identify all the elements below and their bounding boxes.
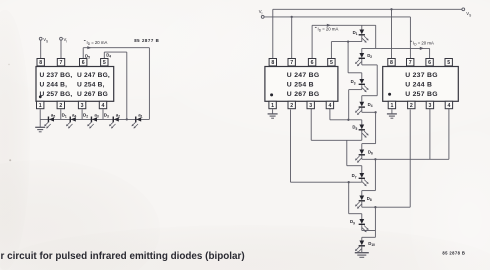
- pin 5 (U2): [328, 59, 335, 67]
- wire D9 anode jog: [349, 182, 362, 219]
- svg-text:U 244 B,: U 244 B,: [40, 81, 68, 88]
- pin 1 (U2): [269, 101, 276, 109]
- svg-text:1: 1: [39, 103, 42, 109]
- label D9: [350, 219, 355, 225]
- ground (pin 1 U2): [268, 109, 278, 118]
- svg-text:U 237 BG,: U 237 BG,: [40, 72, 73, 79]
- wire bridge: [375, 25, 377, 48]
- svg-text:U 267 BG: U 267 BG: [287, 91, 320, 98]
- wire: [40, 40, 42, 58]
- label 85 2877 B: [134, 38, 159, 43]
- pin 3 (U3): [426, 101, 433, 109]
- IR diode D1: [359, 30, 369, 43]
- svg-text:5: 5: [103, 60, 106, 66]
- wire D4 cathode link to D6 anode: [362, 108, 377, 144]
- label D3 at pin 4 riser: [104, 113, 109, 119]
- IR diode D3: [361, 73, 363, 79]
- node Vi (left circuit): [60, 37, 68, 43]
- pin 7 (U3): [407, 59, 414, 67]
- wire D8 cathode to pin 2 (U3): [362, 110, 410, 209]
- wire D6 cathode link down to D8 anode: [362, 159, 376, 190]
- IC U2 U247BG/U254B/U267BG: [265, 67, 338, 102]
- ground (below D10): [355, 247, 369, 258]
- label D1: [353, 30, 358, 36]
- label D1 at pin 2 riser: [62, 113, 67, 119]
- pin 4 (U1): [99, 101, 106, 109]
- label D4 at pin 5: [106, 52, 111, 58]
- label D4: [368, 102, 373, 108]
- node VS (right circuit): [462, 8, 471, 17]
- ground (pin 1 U3): [387, 109, 397, 118]
- wire D5 cathode / pin 3 (U2) line: [311, 109, 362, 141]
- pin 6 (U3): [426, 59, 433, 67]
- label a4: [72, 113, 77, 119]
- wire D3 cathode jog down to D5 anode: [349, 85, 362, 120]
- label D2: [367, 53, 372, 59]
- svg-text:U 247 BG,: U 247 BG,: [77, 72, 110, 79]
- pin 3 (U1): [78, 101, 85, 109]
- label a2: [116, 113, 121, 119]
- pin 2 (U2): [288, 101, 295, 109]
- svg-text:6: 6: [311, 60, 314, 66]
- wire ID arrow (U3): [362, 47, 430, 59]
- IR diode a5 (left circuit): [44, 117, 54, 129]
- svg-text:4: 4: [102, 103, 105, 109]
- label D2 at pin 3 riser: [83, 113, 88, 119]
- wire D7 anode: [361, 166, 363, 173]
- svg-text:1: 1: [390, 103, 393, 109]
- pin 7 (U2): [288, 59, 295, 67]
- wire risers to diode chain: [40, 109, 103, 119]
- label a3: [94, 113, 99, 119]
- IR diode D9: [359, 219, 369, 232]
- IR diode a4 (left circuit): [66, 117, 76, 129]
- pin 8 (U3): [388, 59, 395, 67]
- IC U1 U237BG/U244B/U257BG U247BG/U254B/U267BG: [36, 67, 114, 102]
- label 85 2878: [442, 250, 465, 255]
- svg-text:8: 8: [271, 60, 274, 66]
- pin 2 (U3): [408, 101, 415, 109]
- pin 5 (U3): [445, 59, 452, 67]
- label ID = 20 mA (left circuit): [84, 40, 108, 46]
- svg-text:8: 8: [39, 60, 42, 66]
- svg-text:6: 6: [82, 60, 85, 66]
- svg-text:5: 5: [447, 60, 450, 66]
- wire VS rail: [273, 8, 462, 58]
- svg-text:85 2878 B: 85 2878 B: [442, 250, 465, 255]
- wire D1 cathode to pin 5 (U2): [331, 36, 361, 59]
- svg-text:7: 7: [409, 60, 412, 66]
- pin 1 (U1): [37, 101, 44, 109]
- svg-text:3: 3: [428, 103, 431, 109]
- pin 2 (U1): [57, 101, 64, 109]
- IR diode a2 (left circuit): [109, 117, 119, 129]
- wire D4 anode: [361, 96, 363, 102]
- label D5 at pin 6: [85, 53, 90, 59]
- svg-text:U 267 BG: U 267 BG: [77, 91, 108, 98]
- svg-text:5: 5: [330, 60, 333, 66]
- label ID = 20 mA (U2): [315, 27, 339, 33]
- IR diode D4: [355, 102, 365, 115]
- node VS (left circuit): [39, 37, 48, 43]
- svg-text:7: 7: [60, 60, 63, 66]
- svg-text:6: 6: [428, 60, 431, 66]
- wire D9 cathode jog right: [362, 207, 376, 237]
- wire diode chain baseline: [40, 118, 149, 120]
- pin 4 (U2): [326, 101, 333, 109]
- IR diode D6: [361, 144, 363, 150]
- label D7: [352, 173, 357, 179]
- caption: driver circuit for pulsed infrared emitting diodes (bipolar): [1, 251, 245, 262]
- wire D2 cathode link to D4 anode: [362, 59, 377, 96]
- label a5: [51, 113, 56, 119]
- IR diode D2: [361, 48, 363, 53]
- pin 7 (U1): [57, 59, 64, 67]
- svg-text:U 257 BG,: U 257 BG,: [40, 91, 73, 98]
- wire D6 cathode bus to pins 3,4 (U3): [362, 109, 449, 161]
- IR diode D7: [359, 173, 369, 186]
- svg-text:8: 8: [390, 60, 393, 66]
- node Vi (right circuit): [259, 9, 264, 18]
- svg-text:1: 1: [271, 103, 274, 109]
- svg-text:U 254 B: U 254 B: [287, 81, 314, 88]
- pin 8 (U1): [37, 59, 44, 67]
- label D6: [368, 149, 373, 155]
- svg-text:2: 2: [290, 103, 293, 109]
- svg-text:4: 4: [447, 103, 450, 109]
- svg-text:U 247 BG: U 247 BG: [287, 72, 320, 79]
- svg-text:3: 3: [309, 103, 312, 109]
- pin 8 (U2): [269, 59, 276, 67]
- svg-text:4: 4: [328, 103, 331, 109]
- wire to D3 anode: [348, 42, 362, 73]
- svg-text:U 254 B,: U 254 B,: [77, 81, 105, 88]
- svg-text:2: 2: [59, 103, 62, 109]
- paper speck: [9, 159, 11, 161]
- svg-text:U 237 BG: U 237 BG: [405, 72, 438, 79]
- IC U3 U237BG/U244B/U257BG: [383, 67, 459, 102]
- IR diode D10: [361, 237, 363, 240]
- pin 6 (U2): [308, 59, 315, 67]
- label D8: [367, 196, 372, 202]
- paper speck: [8, 64, 9, 65]
- wire chain riser right: [148, 48, 150, 120]
- pin 6 (U1): [80, 59, 87, 67]
- pin 4 (U3): [445, 101, 452, 109]
- pin 5 (U1): [101, 59, 108, 67]
- pin 3 (U2): [307, 101, 314, 109]
- svg-text:U 257 BG: U 257 BG: [405, 91, 438, 98]
- label ID = 20 mA (U3): [410, 41, 434, 47]
- wire D7 cathode to pin 2 (U2): [291, 110, 362, 184]
- svg-text:7: 7: [290, 60, 293, 66]
- pin 1 (U3): [388, 101, 395, 109]
- svg-text:3: 3: [81, 103, 84, 109]
- wire ID arrow (U2): [312, 24, 376, 59]
- IR diode a3 (left circuit): [87, 117, 97, 129]
- svg-text:2: 2: [410, 103, 413, 109]
- svg-text:U 244 B: U 244 B: [405, 81, 432, 88]
- wire pin5 tap to chain: [104, 52, 128, 120]
- svg-text:85 2877 B: 85 2877 B: [134, 38, 159, 43]
- IR diode D5: [359, 125, 369, 138]
- wire ID arrow (left circuit): [83, 46, 149, 58]
- label D10: [368, 241, 375, 247]
- label D3: [351, 79, 356, 85]
- wire: [60, 40, 62, 58]
- wire D5 cathode jog down to D7 anode: [347, 140, 362, 165]
- wire Vi rail: [264, 16, 410, 59]
- IR diode D8: [361, 191, 363, 196]
- IR diode a1 (left circuit): [132, 117, 142, 129]
- label a1: [138, 113, 143, 119]
- wire pin 4 (U2) to D5 anode: [330, 109, 362, 125]
- wire D1 anode: [361, 25, 363, 29]
- label D5: [352, 125, 357, 131]
- ground (left circuit): [35, 119, 45, 131]
